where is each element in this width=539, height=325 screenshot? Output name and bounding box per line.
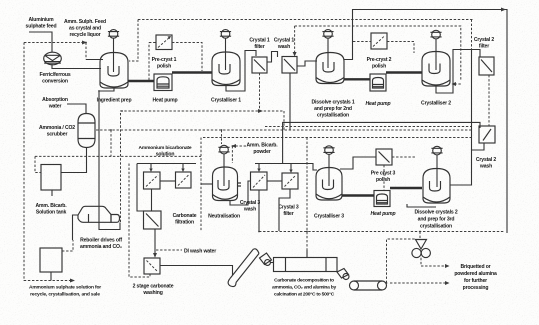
svg-text:Aluminium: Aluminium bbox=[29, 17, 55, 23]
svg-text:Ammonia / CO2: Ammonia / CO2 bbox=[39, 125, 75, 131]
svg-text:sulphate feed: sulphate feed bbox=[26, 24, 57, 30]
wire: dashed recycle liquor line with arrow bbox=[24, 42, 82, 44]
dashed process-area border right / kiln feed bbox=[306, 138, 308, 251]
wire: long vertical right of crystalliser 2 bbox=[471, 50, 473, 151]
filter square: Crystal 2 wash bbox=[479, 126, 495, 143]
wire: recycle liquor drop into ingredient prep bbox=[85, 43, 87, 60]
svg-text:polish: polish bbox=[376, 177, 390, 183]
svg-text:Ammonium bicarbonate: Ammonium bicarbonate bbox=[139, 145, 192, 151]
vessel: Crystalliser 2 bbox=[422, 52, 450, 87]
svg-text:filtration: filtration bbox=[175, 220, 194, 226]
label: Dissolve crystals 2 and prep for 3rd crystallisation bbox=[414, 210, 457, 230]
svg-text:recycle, crystallisation, and: recycle, crystallisation, and sale bbox=[30, 292, 100, 298]
svg-text:Heat pump: Heat pump bbox=[153, 98, 178, 104]
svg-text:Crystal 3: Crystal 3 bbox=[278, 205, 298, 211]
wire: crystal 2 filter bottom to crystal 2 wash bbox=[488, 75, 490, 126]
elevator-kiln connector bbox=[260, 253, 272, 265]
wire: dashed header 2 bbox=[265, 126, 471, 128]
svg-text:solution: solution bbox=[156, 152, 175, 158]
svg-text:filter: filter bbox=[479, 44, 489, 50]
wire: conveyor riser to briquetter bbox=[387, 239, 416, 283]
svg-text:water: water bbox=[48, 104, 62, 110]
svg-text:Crystalliser 2: Crystalliser 2 bbox=[421, 101, 451, 107]
wire: powdered product arrow bbox=[390, 282, 445, 284]
filter square: carbonate filter A bbox=[144, 172, 161, 189]
wire: solution header into crystalliser 3 bbox=[255, 164, 317, 171]
svg-text:Briquetted or: Briquetted or bbox=[460, 264, 490, 270]
svg-text:processing: processing bbox=[463, 285, 489, 291]
svg-text:and prep for 3rd: and prep for 3rd bbox=[418, 217, 455, 223]
label: Pre-cryst 2 polish bbox=[367, 57, 392, 70]
svg-text:and prep for 2nd: and prep for 2nd bbox=[314, 106, 352, 112]
wire: crystalliser 1 bottom outlet up to crystal 1 filter bbox=[226, 51, 256, 92]
filter square: Carbonate filtration C bbox=[144, 211, 162, 229]
label: Pre-cryst 1 polish bbox=[152, 57, 177, 70]
label: Carbonate decomposition to ammonia, CO2 and alumina by calcination at 200C to 500C bbox=[272, 278, 336, 298]
wire: thick dissolve 1 to heat pump 2 bbox=[344, 78, 370, 80]
svg-text:Heat pump: Heat pump bbox=[371, 211, 396, 217]
svg-text:recycle liquor: recycle liquor bbox=[69, 32, 100, 38]
svg-text:as crystal and: as crystal and bbox=[69, 26, 101, 32]
conveyor bbox=[350, 281, 387, 290]
motor M7 on dissolve vessel 2 bbox=[431, 146, 442, 187]
wire: dashed bicarb solution header bbox=[35, 155, 201, 157]
vessel: Dissolve crystals 1 bbox=[316, 53, 344, 84]
heat pump 1 bbox=[154, 74, 172, 91]
label: Crystal 3 filter bbox=[278, 205, 298, 218]
wire: wash bottom drop bbox=[289, 73, 291, 130]
vessel: Crystalliser 1 bbox=[212, 52, 240, 86]
label: Crystal 1 wash bbox=[274, 38, 294, 51]
wire: neutralisation inlet from dashed border bbox=[201, 183, 213, 185]
svg-text:polish: polish bbox=[372, 64, 386, 70]
label: Amm. Bicarb. powder bbox=[246, 143, 278, 156]
svg-text:Amm. Sulph. Feed: Amm. Sulph. Feed bbox=[64, 19, 106, 25]
filter square: Crystal 2 filter bbox=[479, 57, 494, 75]
svg-text:filter: filter bbox=[283, 211, 293, 217]
wire: dashed left border of washing section bbox=[129, 164, 150, 278]
svg-text:Amm. Bicarb.: Amm. Bicarb. bbox=[246, 143, 278, 149]
svg-text:wash: wash bbox=[277, 44, 290, 50]
svg-text:conversion: conversion bbox=[42, 79, 68, 85]
svg-text:DI wash water: DI wash water bbox=[184, 249, 216, 255]
svg-text:Crystal 3: Crystal 3 bbox=[240, 200, 260, 206]
svg-text:Pre-cryst 2: Pre-cryst 2 bbox=[367, 57, 392, 63]
wire: main solid drop from ingredient prep through reboiler bbox=[99, 88, 114, 206]
vessel: Crystalliser 3 bbox=[316, 168, 342, 201]
svg-text:Reboiler drives off: Reboiler drives off bbox=[80, 238, 122, 244]
svg-text:Amm. Bicarb.: Amm. Bicarb. bbox=[35, 203, 67, 209]
wire: dashed into/out of pre-cryst 1 polish bbox=[149, 43, 202, 81]
svg-text:Crystalliser 1: Crystalliser 1 bbox=[211, 98, 241, 104]
wire: reboiler drain to product tank bbox=[73, 215, 79, 240]
filter square: Pre-cryst 2 polish bbox=[371, 33, 387, 49]
dashed bottom border bbox=[259, 231, 505, 233]
briquetting rolls with funnel bbox=[412, 240, 431, 258]
filter square: Pre cryst 3 polish bbox=[376, 149, 392, 165]
wire: dashed pre-cryst 2 connections bbox=[353, 42, 414, 54]
wire: feed line into ferric/ferrous unit bbox=[29, 32, 52, 53]
svg-text:Carbonate: Carbonate bbox=[173, 213, 197, 219]
vessel: Ingredient prep bbox=[100, 53, 128, 89]
svg-text:wash: wash bbox=[243, 207, 256, 213]
svg-text:crystallisation: crystallisation bbox=[420, 224, 452, 230]
wire: thick heat pump 2 to crystalliser 2 bbox=[386, 71, 422, 73]
wire: wash bottom to border bbox=[258, 190, 260, 231]
filter square: carbonate filter B bbox=[176, 172, 192, 188]
wire: left dashed border down to bottom arrow bbox=[24, 43, 70, 281]
wire: C down to D bbox=[154, 229, 156, 255]
label: DI wash water with dashed feed bbox=[156, 249, 182, 251]
wire: reboiler bottom loop bbox=[99, 222, 120, 230]
label: Crystal 2 wash bbox=[476, 157, 496, 170]
wire: scrubber bottom to bicarb tank bbox=[61, 148, 87, 173]
wire: dash return arrow near crystalliser 2 bbox=[456, 83, 461, 85]
wire: wash to filter connector bbox=[267, 180, 282, 182]
filter square: Pre-cryst 1 polish bbox=[156, 35, 172, 50]
label: Crystal 2 filter bbox=[474, 37, 494, 50]
wire: A to B connector bbox=[160, 180, 176, 182]
svg-text:scrubber: scrubber bbox=[47, 132, 68, 138]
wire: crystal 1 wash to dissolve vessel 1 bbox=[297, 61, 317, 66]
label: 2 stage carbonate washing bbox=[133, 284, 174, 297]
wire: pre-cryst 3 connections bbox=[383, 165, 385, 191]
svg-text:powder: powder bbox=[253, 149, 270, 155]
filter square: Crystal 3 filter bbox=[282, 173, 298, 189]
svg-text:Pre cryst 3: Pre cryst 3 bbox=[371, 171, 396, 177]
wire: top dashed header bbox=[138, 19, 473, 21]
svg-text:Dissolve crystals 1: Dissolve crystals 1 bbox=[311, 100, 354, 106]
wire: crystal 1 filter to crystal 1 wash bbox=[267, 52, 278, 63]
svg-text:Absorption: Absorption bbox=[42, 97, 68, 103]
svg-text:crystallisation: crystallisation bbox=[317, 113, 349, 119]
motor M6 on crystalliser 3 bbox=[323, 146, 334, 186]
wire: briquetted product dashed arrow bbox=[421, 258, 445, 266]
label: Reboiler drives off ammonia and CO2 bbox=[80, 238, 122, 251]
wire: neutralisation outlet to crystal 3 wash bbox=[230, 181, 251, 205]
svg-text:Ferric/ferrous: Ferric/ferrous bbox=[39, 72, 70, 78]
motor M2 on crystalliser 1 bbox=[220, 30, 231, 70]
label: Ferric/ferrous conversion bbox=[39, 72, 70, 85]
wire: dashed drop into crystal 1 wash with arrow bbox=[294, 26, 296, 52]
bucket elevator bbox=[228, 249, 259, 287]
wire: powder dashed feed arrow to neutralisation bbox=[236, 145, 246, 147]
wire: dashed filtrate drop from crystal 1 filter bbox=[259, 73, 261, 111]
wire: thick line ingredient prep to heat pump 1 bbox=[128, 80, 154, 82]
label: Ammonium sulphate solution for recycle, crystallisation, and sale bbox=[29, 285, 101, 298]
wire: filter bottom loop to border bbox=[279, 189, 290, 231]
wire: briquetter feed from border bbox=[419, 232, 421, 239]
svg-text:Solution tank: Solution tank bbox=[36, 210, 67, 216]
motor M1 on ingredient prep bbox=[108, 30, 119, 72]
wire: crystalliser 2 outlet loop to crystal 2 filter bbox=[436, 50, 480, 94]
wire: solid distribution line over carbonate squares bbox=[137, 163, 196, 165]
label: Aluminium sulphate feed bbox=[26, 17, 57, 30]
rotary calciner kiln bbox=[274, 258, 338, 272]
svg-text:Crystal 2: Crystal 2 bbox=[474, 37, 494, 43]
filter square: Crystal 3 wash bbox=[251, 172, 268, 190]
vessel: Neutralisation bbox=[213, 167, 238, 201]
label: Pre cryst 3 polish bbox=[371, 171, 396, 184]
filter square: 2 stage carbonate washing D bbox=[144, 258, 160, 274]
kiln-conveyor connector bbox=[337, 269, 349, 280]
heat pump 2 bbox=[370, 74, 386, 91]
wire: solid header to crystal 2 wash bbox=[283, 122, 480, 163]
wire: dashed scrubber overhead header bbox=[96, 129, 471, 131]
ferric/ferrous conversion unit bbox=[44, 52, 62, 65]
wire: thick heat pump 1 to crystalliser 1 bbox=[172, 71, 212, 73]
label: Amm. Sulph. Feed as crystal and recycle liquor bbox=[64, 19, 106, 38]
wire: crystalliser 3 top to pre-cryst 3 bbox=[340, 157, 376, 169]
dashed process-area border left bbox=[200, 138, 202, 232]
wire: dashed vapour riser from reboiler bbox=[121, 111, 285, 222]
svg-text:2 stage carbonate: 2 stage carbonate bbox=[133, 284, 174, 290]
svg-text:calcination at 200°C to 500°C: calcination at 200°C to 500°C bbox=[274, 292, 335, 298]
svg-text:Crystal 1: Crystal 1 bbox=[249, 38, 269, 44]
svg-text:Ammonium sulphate solution for: Ammonium sulphate solution for bbox=[29, 285, 101, 291]
svg-text:washing: washing bbox=[142, 290, 162, 296]
filter square: Crystal 1 wash bbox=[282, 57, 297, 74]
wire: connector to kiln bbox=[271, 262, 274, 264]
label: Dissolve crystals 1 and prep for 2nd crystallisation bbox=[311, 100, 354, 119]
label: Carbonate filtration bbox=[173, 213, 197, 226]
tank: product tank (ammonium sulphate solution) bbox=[40, 248, 62, 272]
tank: Amm. Bicarb. Solution tank bbox=[41, 165, 61, 191]
wire: D outlet to bucket elevator bbox=[160, 266, 233, 276]
svg-text:Pre-cryst 1: Pre-cryst 1 bbox=[152, 57, 177, 63]
svg-text:Ingredient prep: Ingredient prep bbox=[97, 98, 132, 104]
svg-text:Heat pump: Heat pump bbox=[366, 101, 391, 107]
vessel: Dissolve crystals 2 bbox=[423, 169, 450, 204]
wire: absorption water into scrubber bbox=[67, 104, 86, 114]
wire: ferric unit outlet to ingredient prep bbox=[52, 64, 101, 69]
label: Ammonium bicarbonate solution bbox=[139, 145, 192, 158]
svg-text:powdered alumina: powdered alumina bbox=[454, 271, 497, 277]
svg-text:ammonia, CO₂ and alumina by: ammonia, CO₂ and alumina by bbox=[272, 285, 336, 291]
svg-text:ammonia and CO₂: ammonia and CO₂ bbox=[80, 244, 122, 250]
motor M5 on neutralisation bbox=[218, 145, 229, 186]
svg-text:Dissolve crystals 2: Dissolve crystals 2 bbox=[414, 210, 457, 216]
wire: A down to C bbox=[151, 189, 153, 211]
label: Absorption water bbox=[42, 97, 68, 110]
svg-text:polish: polish bbox=[157, 64, 171, 70]
vessel: Ammonia / CO2 scrubber column bbox=[78, 114, 95, 148]
label: Crystal 3 wash bbox=[240, 200, 260, 213]
label: Ammonia / CO2 scrubber bbox=[39, 125, 75, 138]
label: Briquetted or powdered alumina for further processing bbox=[454, 264, 497, 291]
label: Crystal 1 filter bbox=[249, 38, 269, 51]
wire: thick crystalliser 3 to heat pump 3 bbox=[342, 194, 374, 196]
wire: bicarb tank to reboiler bbox=[51, 190, 53, 196]
filter square: Crystal 1 filter bbox=[252, 57, 267, 73]
svg-text:for further: for further bbox=[464, 278, 487, 284]
motor M3 on dissolve vessel 1 bbox=[322, 30, 333, 68]
svg-text:Crystalliser 3: Crystalliser 3 bbox=[314, 214, 344, 220]
svg-text:Crystal 2: Crystal 2 bbox=[476, 157, 496, 163]
wire: dissolve 2 bottom skirt outlet bbox=[407, 204, 436, 207]
wire: thick heat pump 3 to dissolve 2 bbox=[390, 187, 422, 189]
wire: crystal 2 wash bottom loop to dissolve 2 bbox=[450, 143, 484, 185]
svg-text:Crystal 1: Crystal 1 bbox=[274, 38, 294, 44]
wire: top solid recycle header bbox=[344, 10, 507, 234]
motor M4 on crystalliser 2 bbox=[430, 30, 441, 70]
svg-text:wash: wash bbox=[479, 164, 492, 170]
wire: product tank stubs bbox=[50, 272, 52, 281]
heat pump 3 bbox=[374, 191, 390, 207]
reboiler unit bbox=[78, 206, 120, 222]
label: Amm. Bicarb. Solution tank bbox=[35, 203, 67, 216]
svg-text:Carbonate decomposition to: Carbonate decomposition to bbox=[274, 278, 334, 284]
svg-text:filter: filter bbox=[254, 44, 264, 50]
wire: dashed header 3 bbox=[203, 137, 471, 139]
svg-text:Neutralisation: Neutralisation bbox=[208, 214, 240, 220]
